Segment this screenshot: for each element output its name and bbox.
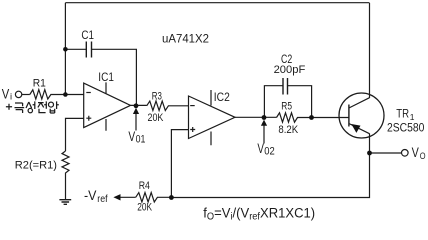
svg-text:1: 1 [410, 112, 415, 122]
svg-text:-V: -V [84, 188, 96, 203]
svg-text:TR: TR [396, 109, 409, 121]
svg-text:200pF: 200pF [274, 64, 306, 76]
svg-text:R1: R1 [33, 78, 46, 90]
svg-text:C1: C1 [81, 28, 94, 42]
svg-text:i: i [10, 90, 12, 101]
svg-text:R4: R4 [139, 180, 150, 192]
svg-text:8.2K: 8.2K [278, 124, 298, 136]
svg-text:01: 01 [136, 133, 146, 145]
svg-text:V: V [257, 141, 264, 156]
svg-text:IC2: IC2 [214, 92, 230, 104]
svg-text:V: V [128, 129, 135, 144]
svg-text:R3: R3 [152, 90, 162, 102]
svg-text:V: V [412, 145, 419, 160]
svg-text:20K: 20K [148, 112, 164, 124]
svg-text:R5: R5 [281, 101, 292, 113]
svg-text:O: O [420, 151, 426, 161]
svg-text:02: 02 [264, 146, 275, 158]
svg-text:20K: 20K [137, 202, 152, 214]
svg-text:ref: ref [97, 194, 107, 205]
svg-text:2SC580: 2SC580 [387, 122, 424, 134]
svg-text:R2(=R1): R2(=R1) [15, 160, 57, 172]
svg-text:fO=Vi/(VrefXR1XC1): fO=Vi/(VrefXR1XC1) [203, 204, 315, 222]
svg-text:V: V [2, 87, 10, 102]
svg-text:uA741X2: uA741X2 [162, 34, 209, 46]
svg-text:IC1: IC1 [98, 72, 114, 84]
